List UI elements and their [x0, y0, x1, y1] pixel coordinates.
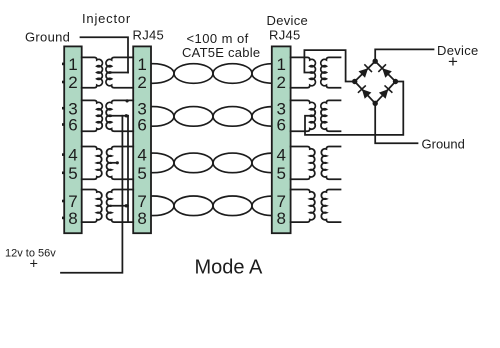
device transformer T5 device-side winding [321, 57, 341, 87]
device transformer T7 line winding (pins 4/5) [291, 147, 315, 180]
connector strip injector RJ45 jack J2 [133, 46, 151, 233]
bridge node + [373, 59, 378, 64]
svg-text:2: 2 [276, 73, 285, 92]
twisted pair 1/2 cable [132, 64, 294, 84]
ground input wire [81, 37, 129, 72]
injector transformer T2 primary winding (pins 3/6) [82, 100, 103, 131]
wire bridge + output to Device + [375, 49, 433, 61]
device transformer T8 line winding (pins 7/8) [291, 190, 315, 223]
svg-text:2: 2 [68, 73, 77, 92]
svg-text:Device: Device [267, 13, 309, 28]
svg-text:2: 2 [137, 73, 146, 92]
center tap T4 to bus [112, 205, 128, 207]
lower bus wire [127, 116, 129, 222]
connector strip injector input connector J1 [64, 46, 82, 233]
connector strip device RJ45 jack J3 [272, 46, 291, 233]
center tap T6 wire to bridge AC input (right) [305, 82, 403, 135]
svg-text:6: 6 [68, 116, 77, 135]
twisted pair 3/6 cable [132, 107, 294, 127]
bridge node AC right [393, 79, 398, 84]
center tap T5 wire to bridge AC input (left) [304, 50, 352, 81]
svg-text:Injector: Injector [82, 11, 131, 26]
svg-text:+: + [448, 52, 458, 71]
pin numbers injector input connector J1 [68, 55, 77, 228]
injector transformer T4 primary winding (pins 7/8) [82, 190, 102, 223]
svg-text:5: 5 [276, 164, 285, 183]
svg-text:<100 m of: <100 m of [187, 31, 249, 46]
pin numbers device RJ45 jack J3 [276, 55, 285, 228]
twisted pair 4/5 cable [132, 153, 294, 173]
svg-text:1: 1 [137, 55, 146, 74]
bridge node AC left [352, 79, 357, 84]
diode D2 (right AC to +) [382, 68, 392, 78]
svg-text:Ground: Ground [25, 30, 70, 45]
device transformer T5 line winding (pins 1/2) [291, 57, 316, 87]
svg-text:Ground: Ground [422, 137, 465, 152]
diode D4 (- to right AC) [379, 89, 389, 99]
svg-text:RJ45: RJ45 [133, 28, 165, 43]
svg-text:5: 5 [68, 164, 77, 183]
svg-text:8: 8 [68, 209, 77, 228]
diode bridge frame [355, 61, 396, 103]
pin tick marks on input connector [62, 63, 64, 220]
injector transformer T3 secondary winding [107, 147, 134, 180]
pin numbers injector RJ45 jack J2 [137, 55, 146, 228]
wire bridge - output to Ground [375, 103, 417, 143]
svg-text:1: 1 [68, 55, 77, 74]
injector transformer T2 secondary winding [106, 100, 133, 131]
svg-text:8: 8 [137, 209, 146, 228]
svg-text:6: 6 [276, 116, 285, 135]
center tap T2 to +V bus [112, 115, 128, 117]
svg-text:1: 1 [276, 55, 285, 74]
svg-text:4: 4 [137, 146, 146, 165]
svg-text:CAT5E cable: CAT5E cable [182, 45, 260, 60]
device transformer T6 device-side winding [321, 100, 341, 131]
diode D1 (left AC to +) [359, 68, 369, 78]
svg-text:+: + [30, 257, 38, 273]
svg-text:8: 8 [276, 209, 285, 228]
twisted pair 7/8 cable [132, 196, 294, 216]
svg-text:5: 5 [137, 164, 146, 183]
svg-text:RJ45: RJ45 [269, 28, 301, 43]
injector transformer T4 secondary winding [107, 190, 134, 223]
svg-text:4: 4 [68, 146, 77, 165]
svg-text:6: 6 [137, 116, 146, 135]
center tap T3 stub [112, 162, 118, 164]
bridge node - [373, 101, 378, 106]
junction dot on pin3 wire [126, 99, 129, 102]
svg-text:4: 4 [276, 146, 285, 165]
device transformer T7 device-side winding [321, 147, 340, 180]
injector transformer T3 primary winding (pins 4/5) [82, 147, 102, 180]
center tap T1 to ground bus [112, 72, 128, 74]
device transformer T6 line winding (pins 3/6) [291, 100, 316, 131]
svg-text:Mode A: Mode A [195, 257, 263, 279]
+V bus wire [61, 116, 122, 273]
device transformer T8 device-side winding [321, 190, 340, 223]
diode D3 (- to left AC) [362, 89, 372, 99]
injector transformer T1 secondary winding [106, 57, 133, 87]
injector transformer T1 primary winding (pins 1/2) [82, 57, 103, 87]
